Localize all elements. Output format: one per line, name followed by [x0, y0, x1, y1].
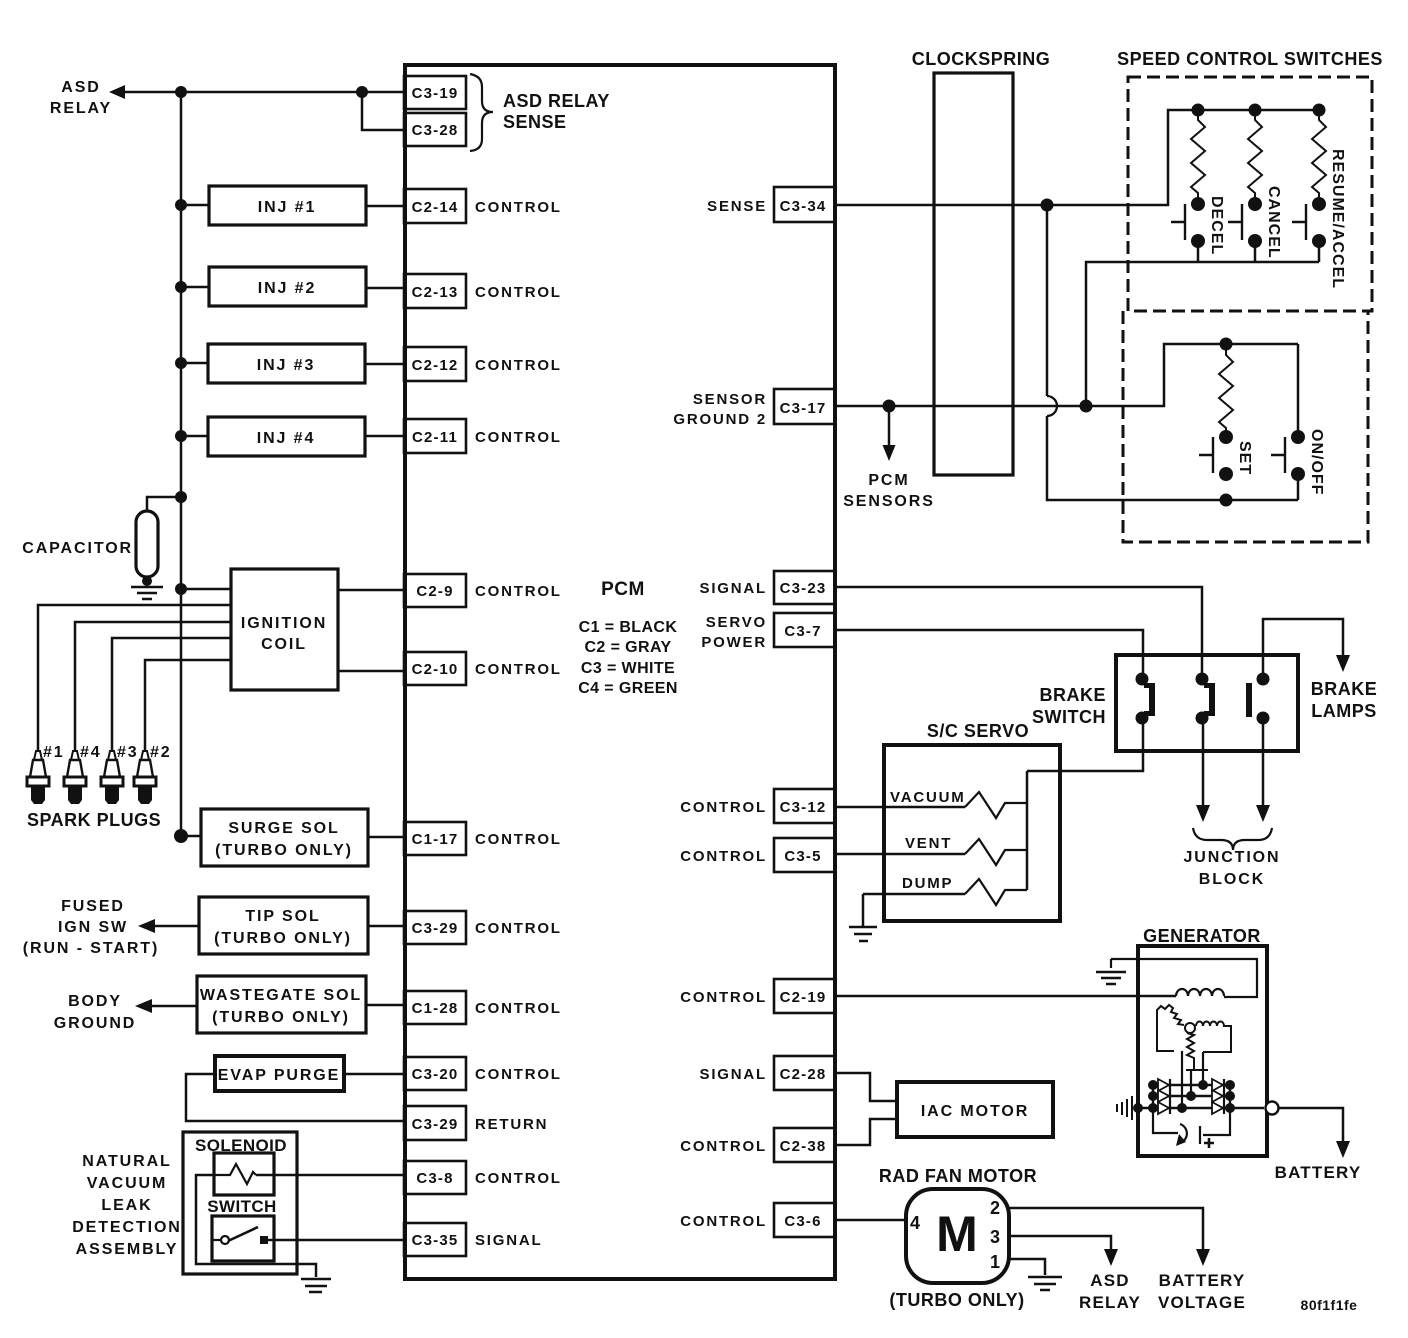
svg-text:C3-29: C3-29	[412, 920, 459, 937]
svg-text:CANCEL: CANCEL	[1265, 186, 1282, 259]
ignition coil box	[231, 569, 338, 690]
svg-text:SIGNAL: SIGNAL	[475, 1232, 542, 1249]
svg-text:IGN SW: IGN SW	[58, 919, 128, 936]
connector pin C3-6	[774, 1203, 835, 1237]
dashed box speed control switches lower	[1123, 311, 1368, 542]
svg-text:80f1f1fe: 80f1f1fe	[1301, 1297, 1358, 1313]
svg-text:LAMPS: LAMPS	[1311, 701, 1377, 721]
voltage regulator	[1157, 1005, 1231, 1070]
svg-text:C3-23: C3-23	[780, 580, 827, 597]
svg-text:C4 = GREEN: C4 = GREEN	[578, 680, 678, 697]
svg-text:(TURBO ONLY): (TURBO ONLY)	[889, 1290, 1024, 1310]
svg-text:VOLTAGE: VOLTAGE	[1158, 1293, 1246, 1312]
switch box	[212, 1216, 274, 1261]
diodes left	[1158, 1079, 1169, 1114]
connector pin C2-9	[404, 574, 466, 607]
s/c servo box	[884, 745, 1060, 921]
arrow to body ground	[149, 1005, 197, 1008]
wire brake lamps	[1263, 619, 1343, 678]
svg-text:C2-19: C2-19	[780, 989, 827, 1006]
svg-text:NATURAL: NATURAL	[82, 1153, 171, 1170]
svg-text:SIGNAL: SIGNAL	[700, 1066, 767, 1083]
injector INJ #4	[208, 417, 365, 456]
wire C2-38 to IAC motor	[834, 1119, 897, 1145]
svg-text:GROUND 2: GROUND 2	[673, 411, 767, 428]
field winding	[1176, 989, 1224, 996]
wire coil to spark plug 4	[75, 622, 231, 750]
wire bus to capacitor	[147, 497, 181, 511]
svg-text:M: M	[936, 1206, 978, 1262]
generator field loop wire	[1111, 959, 1257, 997]
svg-text:INJ #2: INJ #2	[258, 280, 317, 297]
svg-text:CONTROL: CONTROL	[680, 1213, 767, 1230]
switch DECEL	[1191, 197, 1205, 211]
connector pin C2-10	[404, 652, 466, 685]
connector pin C3-5	[774, 838, 835, 872]
connector pin C3-35	[404, 1223, 466, 1256]
svg-text:(RUN - START): (RUN - START)	[23, 940, 159, 957]
svg-text:C2-11: C2-11	[412, 429, 458, 446]
capacitor	[136, 511, 158, 577]
svg-text:CONTROL: CONTROL	[475, 357, 562, 374]
spark plug 1	[27, 751, 49, 804]
svg-text:DECEL: DECEL	[1208, 196, 1225, 255]
wire C3-6 to motor pin 4	[834, 1219, 906, 1222]
svg-text:LEAK: LEAK	[101, 1197, 152, 1214]
svg-text:CAPACITOR: CAPACITOR	[22, 540, 133, 557]
resistor R-decel	[1192, 104, 1205, 117]
svg-text:GROUND: GROUND	[54, 1015, 137, 1032]
svg-text:C2-13: C2-13	[412, 284, 459, 301]
resistor vacuum	[965, 792, 1027, 818]
svg-text:CONTROL: CONTROL	[475, 429, 562, 446]
arrow to ASD relay	[109, 85, 125, 99]
switch bottom bus wire	[1086, 262, 1319, 406]
svg-text:COIL: COIL	[261, 636, 307, 653]
servo vacuum wire	[834, 806, 965, 809]
svg-text:SENSE: SENSE	[503, 112, 567, 132]
injector INJ #3	[208, 344, 365, 383]
brace for ASD relay sense	[470, 74, 493, 151]
svg-text:BATTERY: BATTERY	[1159, 1271, 1246, 1290]
connector pin C3-7	[774, 613, 835, 647]
junction at C3-19 drop	[356, 86, 368, 98]
evap purge box	[215, 1056, 344, 1091]
wire coil to C2-9	[338, 589, 404, 592]
svg-text:BRAKE: BRAKE	[1311, 679, 1378, 699]
svg-text:C3-6: C3-6	[784, 1213, 821, 1230]
connector pin C2-11	[404, 419, 466, 453]
wire C3-23 signal to brake switch	[834, 587, 1202, 678]
svg-text:GENERATOR: GENERATOR	[1143, 926, 1261, 946]
svg-text:BODY: BODY	[68, 993, 122, 1010]
wastegate solenoid box	[197, 976, 366, 1033]
svg-text:VENT: VENT	[905, 835, 952, 852]
svg-text:C2 = GRAY: C2 = GRAY	[584, 639, 671, 656]
svg-text:IGNITION: IGNITION	[241, 615, 327, 632]
svg-text:INJ #1: INJ #1	[258, 199, 317, 216]
svg-text:C2-38: C2-38	[780, 1138, 827, 1155]
wire contact2 to junction block	[1202, 718, 1205, 808]
svg-text:#4: #4	[80, 744, 102, 761]
svg-text:CONTROL: CONTROL	[680, 989, 767, 1006]
connector pin C3-28	[404, 113, 466, 146]
svg-text:C3-12: C3-12	[780, 799, 827, 816]
svg-text:CONTROL: CONTROL	[475, 199, 562, 216]
svg-text:CONTROL: CONTROL	[680, 799, 767, 816]
ground (capacitor)	[131, 587, 163, 599]
svg-text:RELAY: RELAY	[1079, 1293, 1141, 1312]
connector pin C3-23	[774, 571, 835, 604]
svg-text:TIP SOL: TIP SOL	[245, 908, 320, 925]
arrow to fused ign sw	[152, 925, 199, 928]
brake switch box	[1116, 655, 1298, 751]
brake contact 2	[1196, 673, 1209, 686]
svg-text:DETECTION: DETECTION	[72, 1219, 182, 1236]
svg-text:C2-12: C2-12	[412, 357, 459, 374]
svg-text:DUMP: DUMP	[902, 875, 953, 892]
connector pin C3-12	[774, 789, 835, 823]
svg-text:CLOCKSPRING: CLOCKSPRING	[912, 49, 1051, 69]
wire brake contact1 to servo bus	[1027, 718, 1143, 771]
capacitor lead to ground	[146, 577, 149, 585]
PCM module box	[405, 65, 835, 1279]
connector pin C3-19	[404, 76, 466, 109]
svg-text:BATTERY: BATTERY	[1275, 1163, 1362, 1182]
solenoid box	[214, 1153, 274, 1195]
rotor loop with rotation arrow	[1153, 1108, 1178, 1133]
connector pin C2-14	[404, 189, 466, 223]
rectifier row 1	[1153, 1084, 1230, 1086]
switch CANCEL	[1248, 197, 1262, 211]
svg-text:ASD: ASD	[61, 79, 100, 96]
svg-text:S/C SERVO: S/C SERVO	[927, 721, 1029, 741]
main ASD bus wire	[180, 92, 183, 836]
svg-text:SWITCH: SWITCH	[1032, 707, 1106, 727]
svg-text:RETURN: RETURN	[475, 1116, 548, 1133]
svg-text:ASSEMBLY: ASSEMBLY	[76, 1241, 179, 1258]
connector pin C2-13	[404, 274, 466, 308]
svg-text:CONTROL: CONTROL	[475, 284, 562, 301]
regulator stems	[1182, 1051, 1203, 1108]
svg-text:CONTROL: CONTROL	[475, 1000, 562, 1017]
wire C2-19 to field winding	[834, 995, 1176, 998]
wire generator to battery	[1279, 1108, 1343, 1144]
wire solenoid to C3-8	[256, 1174, 404, 1177]
svg-text:C3-34: C3-34	[780, 198, 827, 215]
svg-text:C1-28: C1-28	[412, 1000, 459, 1017]
svg-text:INJ #4: INJ #4	[257, 430, 316, 447]
svg-text:ASD RELAY: ASD RELAY	[503, 91, 610, 111]
wire to C3-28	[362, 92, 404, 130]
ground (rad fan motor)	[1028, 1277, 1062, 1290]
brake contact 1	[1136, 673, 1149, 686]
svg-text:CONTROL: CONTROL	[680, 848, 767, 865]
svg-text:CONTROL: CONTROL	[475, 1170, 562, 1187]
svg-text:(TURBO ONLY): (TURBO ONLY)	[215, 842, 353, 859]
battery symbol inside generator	[1200, 1108, 1230, 1144]
svg-text:WASTEGATE SOL: WASTEGATE SOL	[200, 987, 362, 1004]
spark plug 3	[101, 751, 123, 804]
clockspring box	[934, 73, 1013, 475]
rectifier row 3 output	[1138, 1107, 1264, 1109]
svg-text:VACUUM: VACUUM	[87, 1175, 167, 1192]
junction block brace	[1193, 828, 1272, 850]
generator output terminal	[1266, 1102, 1279, 1115]
injector INJ #1	[209, 186, 366, 225]
wire pin 2 to battery voltage	[1009, 1208, 1203, 1252]
servo dump wire	[863, 893, 965, 896]
resistor dump	[965, 879, 1027, 905]
svg-text:1: 1	[990, 1252, 1001, 1272]
wire evap purge to C3-29 return	[186, 1074, 404, 1121]
svg-text:SENSOR: SENSOR	[693, 391, 767, 408]
switch contacts	[221, 1236, 229, 1244]
junction pcm sensors	[883, 400, 896, 413]
svg-text:RELAY: RELAY	[50, 100, 112, 117]
switch ON/OFF	[1297, 344, 1300, 500]
svg-text:#1: #1	[43, 744, 65, 761]
svg-text:C3-19: C3-19	[412, 85, 459, 102]
surge solenoid box	[201, 809, 368, 866]
svg-text:#2: #2	[150, 744, 172, 761]
ground (generator field)	[1096, 972, 1126, 984]
svg-text:(TURBO ONLY): (TURBO ONLY)	[214, 930, 352, 947]
generator box	[1138, 946, 1267, 1156]
svg-text:3: 3	[990, 1227, 1001, 1247]
wire coil to spark plug 1	[38, 605, 231, 750]
svg-text:C3-17: C3-17	[780, 400, 827, 417]
svg-text:FUSED: FUSED	[61, 898, 125, 915]
wire C3-34 sense	[834, 110, 1319, 205]
svg-text:C3 = WHITE: C3 = WHITE	[581, 660, 675, 677]
ground (NVLD)	[301, 1279, 331, 1292]
dashed box speed control switches upper	[1128, 77, 1372, 311]
svg-text:INJ #3: INJ #3	[257, 357, 316, 374]
connector pin C2-19	[774, 979, 835, 1013]
rectifier column ties	[1153, 1085, 1230, 1108]
svg-text:CONTROL: CONTROL	[475, 1066, 562, 1083]
svg-text:C2-9: C2-9	[416, 583, 453, 600]
svg-text:BLOCK: BLOCK	[1199, 871, 1265, 888]
arrow to PCM sensors	[888, 406, 891, 448]
wire C3-17 sensor ground 2	[834, 344, 1298, 406]
IAC motor box	[897, 1082, 1053, 1137]
wire pin 3 to asd relay	[1009, 1236, 1111, 1252]
svg-text:JUNCTION: JUNCTION	[1184, 849, 1281, 866]
wire coil to spark plug 3	[112, 638, 231, 750]
connector pin C2-28	[774, 1056, 835, 1090]
resistor vent	[965, 839, 1027, 865]
junction bus to surge sol	[174, 829, 188, 843]
svg-text:C3-35: C3-35	[412, 1232, 459, 1249]
brake contact 3	[1257, 673, 1270, 686]
svg-text:SPEED CONTROL SWITCHES: SPEED CONTROL SWITCHES	[1117, 49, 1383, 69]
wire pin 1 to ground	[1009, 1259, 1045, 1275]
solenoid winding zigzag	[214, 1164, 256, 1184]
wire C2-28 to IAC motor	[834, 1073, 897, 1101]
wire coil to spark plug 2	[145, 660, 231, 750]
stator comb symbol	[1117, 1096, 1132, 1120]
svg-text:SURGE SOL: SURGE SOL	[228, 820, 339, 837]
ground (servo)	[849, 927, 877, 941]
wire C3-7 servo power to brake switch	[834, 630, 1143, 678]
servo internal bus	[1026, 771, 1029, 890]
svg-text:C1 = BLACK: C1 = BLACK	[579, 619, 678, 636]
connector pin C3-34	[774, 187, 835, 222]
svg-text:CONTROL: CONTROL	[475, 831, 562, 848]
switch SET	[1219, 430, 1233, 444]
svg-text:RESUME/ACCEL: RESUME/ACCEL	[1329, 149, 1346, 289]
svg-text:SPARK PLUGS: SPARK PLUGS	[27, 810, 161, 830]
svg-text:IAC MOTOR: IAC MOTOR	[921, 1103, 1029, 1120]
svg-text:SWITCH: SWITCH	[207, 1197, 276, 1216]
NVLD internal return wire	[196, 1175, 316, 1277]
svg-text:C2-28: C2-28	[780, 1066, 827, 1083]
svg-text:VACUUM: VACUUM	[890, 789, 966, 806]
connector pin C3-29 return	[404, 1106, 466, 1140]
svg-text:C3-29: C3-29	[412, 1116, 459, 1133]
svg-text:C1-17: C1-17	[412, 831, 459, 848]
svg-text:CONTROL: CONTROL	[475, 920, 562, 937]
rad fan motor body	[906, 1189, 1009, 1283]
svg-text:EVAP PURGE: EVAP PURGE	[218, 1067, 340, 1084]
connector pin C2-12	[404, 347, 466, 381]
svg-text:PCM: PCM	[601, 579, 645, 600]
svg-text:PCM: PCM	[868, 472, 909, 489]
svg-text:(TURBO ONLY): (TURBO ONLY)	[212, 1009, 350, 1026]
svg-text:SENSORS: SENSORS	[843, 493, 935, 510]
svg-text:SERVO: SERVO	[706, 614, 767, 631]
svg-text:CONTROL: CONTROL	[475, 583, 562, 600]
rectifier junction dots	[1133, 1080, 1235, 1113]
wire coil to C2-10	[338, 670, 404, 673]
junction sense wire	[1041, 199, 1054, 212]
junction bus to coil	[175, 583, 187, 595]
svg-text:ON/OFF: ON/OFF	[1308, 429, 1325, 495]
resistor R-set	[1220, 338, 1233, 351]
connector pin C3-8	[404, 1161, 466, 1194]
spark plug 4	[64, 751, 86, 804]
connector pin C3-17	[774, 389, 835, 424]
svg-text:SIGNAL: SIGNAL	[700, 580, 767, 597]
svg-text:C3-28: C3-28	[412, 122, 459, 139]
svg-text:C2-10: C2-10	[412, 661, 459, 678]
servo vent wire	[834, 853, 965, 856]
svg-text:C3-5: C3-5	[784, 848, 821, 865]
rectifier row 2	[1153, 1095, 1230, 1097]
resistor R-cancel	[1249, 104, 1262, 117]
connector pin C2-38	[774, 1128, 835, 1162]
connector pin C3-20	[404, 1057, 466, 1090]
switch RESUME/ACCEL	[1312, 197, 1326, 211]
injector INJ #2	[209, 267, 366, 306]
wire bus to coil	[181, 588, 231, 591]
connector pin C1-28	[404, 991, 466, 1024]
svg-text:SENSE: SENSE	[707, 198, 767, 215]
svg-text:C2-14: C2-14	[412, 199, 459, 216]
svg-text:#3: #3	[117, 744, 139, 761]
svg-text:C3-8: C3-8	[416, 1170, 453, 1187]
connector pin C1-17	[404, 822, 466, 855]
svg-text:C3-20: C3-20	[412, 1066, 459, 1083]
svg-text:CONTROL: CONTROL	[475, 661, 562, 678]
svg-text:BRAKE: BRAKE	[1039, 685, 1106, 705]
tip solenoid box	[199, 897, 368, 954]
svg-text:SET: SET	[1236, 441, 1253, 475]
wire hop over crossing	[1046, 205, 1049, 396]
wire ASD relay to C3-19	[123, 91, 404, 94]
svg-text:RAD FAN MOTOR: RAD FAN MOTOR	[879, 1166, 1037, 1186]
wire contact3 to junction block	[1262, 718, 1265, 808]
svg-text:2: 2	[990, 1198, 1001, 1218]
svg-text:POWER: POWER	[701, 634, 767, 651]
diodes right	[1212, 1079, 1223, 1114]
svg-text:CONTROL: CONTROL	[680, 1138, 767, 1155]
connector pin C3-29	[404, 911, 466, 944]
wire switch to C3-35	[268, 1239, 404, 1242]
spark plug 2	[134, 751, 156, 804]
junction switch ground bus	[1080, 400, 1093, 413]
svg-text:C3-7: C3-7	[784, 623, 821, 640]
NVLD assembly outer box	[183, 1132, 297, 1274]
resistor R-resume	[1313, 104, 1326, 117]
servo ground lead	[862, 894, 865, 926]
svg-text:ASD: ASD	[1090, 1271, 1130, 1290]
junction top bus	[175, 86, 187, 98]
svg-text:4: 4	[910, 1213, 921, 1233]
